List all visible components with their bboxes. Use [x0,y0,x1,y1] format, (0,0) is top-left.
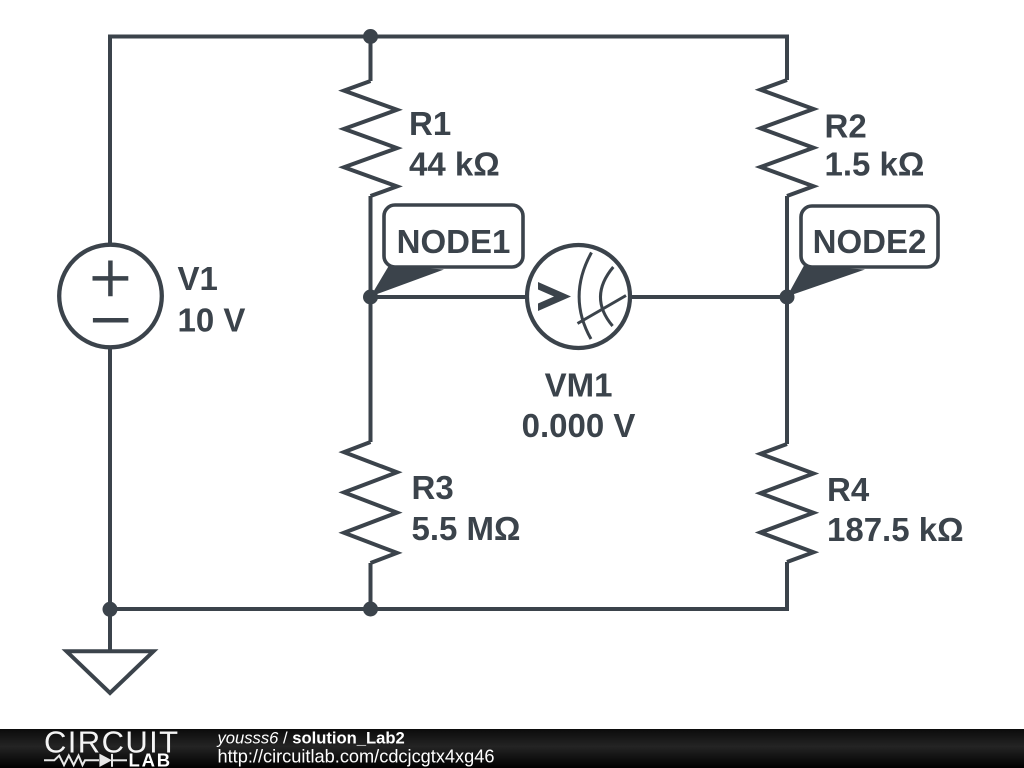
voltage source V1 [59,245,162,348]
CircuitLab logo resistor-diode art [44,754,127,767]
node NODE1 junction dot [363,290,378,305]
resistor R4 [761,444,814,562]
voltmeter VM1 [527,245,630,348]
wire R3 top lead [369,297,373,442]
svg-text:yousss6 / solution_Lab2: yousss6 / solution_Lab2 [217,729,405,748]
wire V1 bottom to bottom rail [108,344,112,609]
svg-text:R2: R2 [825,107,867,144]
wire R2 bottom lead [785,196,789,297]
node B junction dot bottom [363,602,378,617]
svg-text:R3: R3 [412,469,454,506]
svg-text:VM1: VM1 [545,366,613,403]
wire R1 top lead [369,37,373,82]
wire R1 bottom lead [369,196,373,297]
svg-text:R4: R4 [827,471,870,508]
svg-text:LAB: LAB [129,750,172,768]
resistor R2 [761,80,814,196]
wire voltmeter to node2 [629,295,787,299]
node NODE2 flag pointer [787,266,865,297]
voltmeter arrow glyph [538,282,571,311]
wire top-left corner, top wire, right corner down [110,37,787,249]
svg-text:187.5 kΩ: 187.5 kΩ [827,511,964,548]
node NODE1 flag pointer [371,266,445,297]
svg-text:44 kΩ: 44 kΩ [409,145,500,182]
svg-text:NODE1: NODE1 [397,223,511,260]
svg-text:NODE2: NODE2 [813,223,927,260]
wire R3 bottom lead [369,563,373,609]
node A junction dot top [363,29,378,44]
resistor R1 [344,81,397,196]
svg-text:V1: V1 [178,260,218,297]
svg-text:http://circuitlab.com/cdcjcgtx: http://circuitlab.com/cdcjcgtx4xg46 [218,747,495,767]
node NODE1 flag box [384,205,523,267]
wire bottom rail and right corner up [110,562,787,609]
svg-text:R1: R1 [409,105,451,142]
svg-text:1.5 kΩ: 1.5 kΩ [825,145,925,182]
wire node1 to voltmeter [371,295,530,299]
node ground junction dot [103,602,118,617]
svg-text:0.000 V: 0.000 V [522,407,636,444]
ground [108,609,112,651]
wire R4 top lead [785,297,789,444]
svg-text:10 V: 10 V [178,301,246,338]
node NODE2 junction dot [780,290,795,305]
node NODE2 flag box [801,206,938,267]
svg-text:5.5 MΩ: 5.5 MΩ [412,510,521,547]
resistor R3 [344,442,397,563]
